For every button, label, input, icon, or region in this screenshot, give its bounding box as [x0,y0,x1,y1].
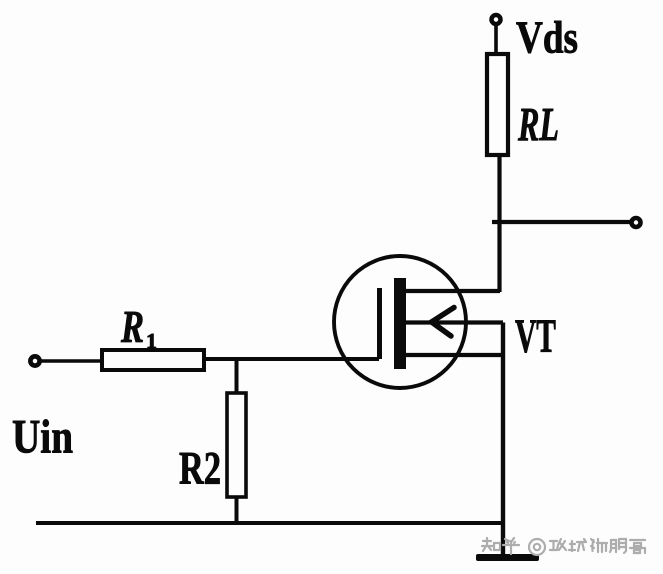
transistor VT: substrate arrow [432,308,455,337]
wire: output line from drain node [492,220,630,224]
terminal: drain supply (top) [492,15,501,24]
resistor R2 [227,393,246,497]
svg-text:RL: RL [517,99,559,152]
svg-text:R2: R2 [179,443,221,495]
svg-text:1: 1 [146,329,157,353]
cheng [569,539,586,551]
svg-text:Vds: Vds [516,12,578,63]
zhi [482,538,500,551]
hu [503,538,519,554]
wire: terminal to RL [494,24,498,56]
resistor RL [487,54,508,155]
wire: bottom rail [36,521,504,525]
wire: R to gate [204,357,379,361]
terminal: input (left) [30,356,39,365]
wire: R2 to bottom rail [235,497,239,525]
transistor VT: body circle [334,256,466,388]
wire: drain lead [404,289,500,293]
transistor VT: gate electrode [377,288,382,359]
ground [476,554,539,561]
transistor VT: channel bar [394,278,406,369]
peng [610,539,626,553]
gong [550,539,566,550]
wire: substrate lead [404,320,503,324]
wire: input terminal to R [40,359,103,363]
shi [591,539,607,552]
watermark: zhihu @gongchengshipengge [482,538,645,555]
node: gate / R2 junction [235,359,239,394]
resistor R1 [102,350,204,370]
wire: source lead [404,353,503,357]
ge [630,540,645,553]
svg-text:VT: VT [515,310,556,363]
at sign [529,539,545,555]
wire: RL to drain lead (vertical) [497,155,501,292]
svg-text:R: R [120,302,144,352]
terminal: output (right) [632,218,641,227]
svg-text:Uin: Uin [12,411,73,464]
wire: source down to ground [501,323,505,558]
